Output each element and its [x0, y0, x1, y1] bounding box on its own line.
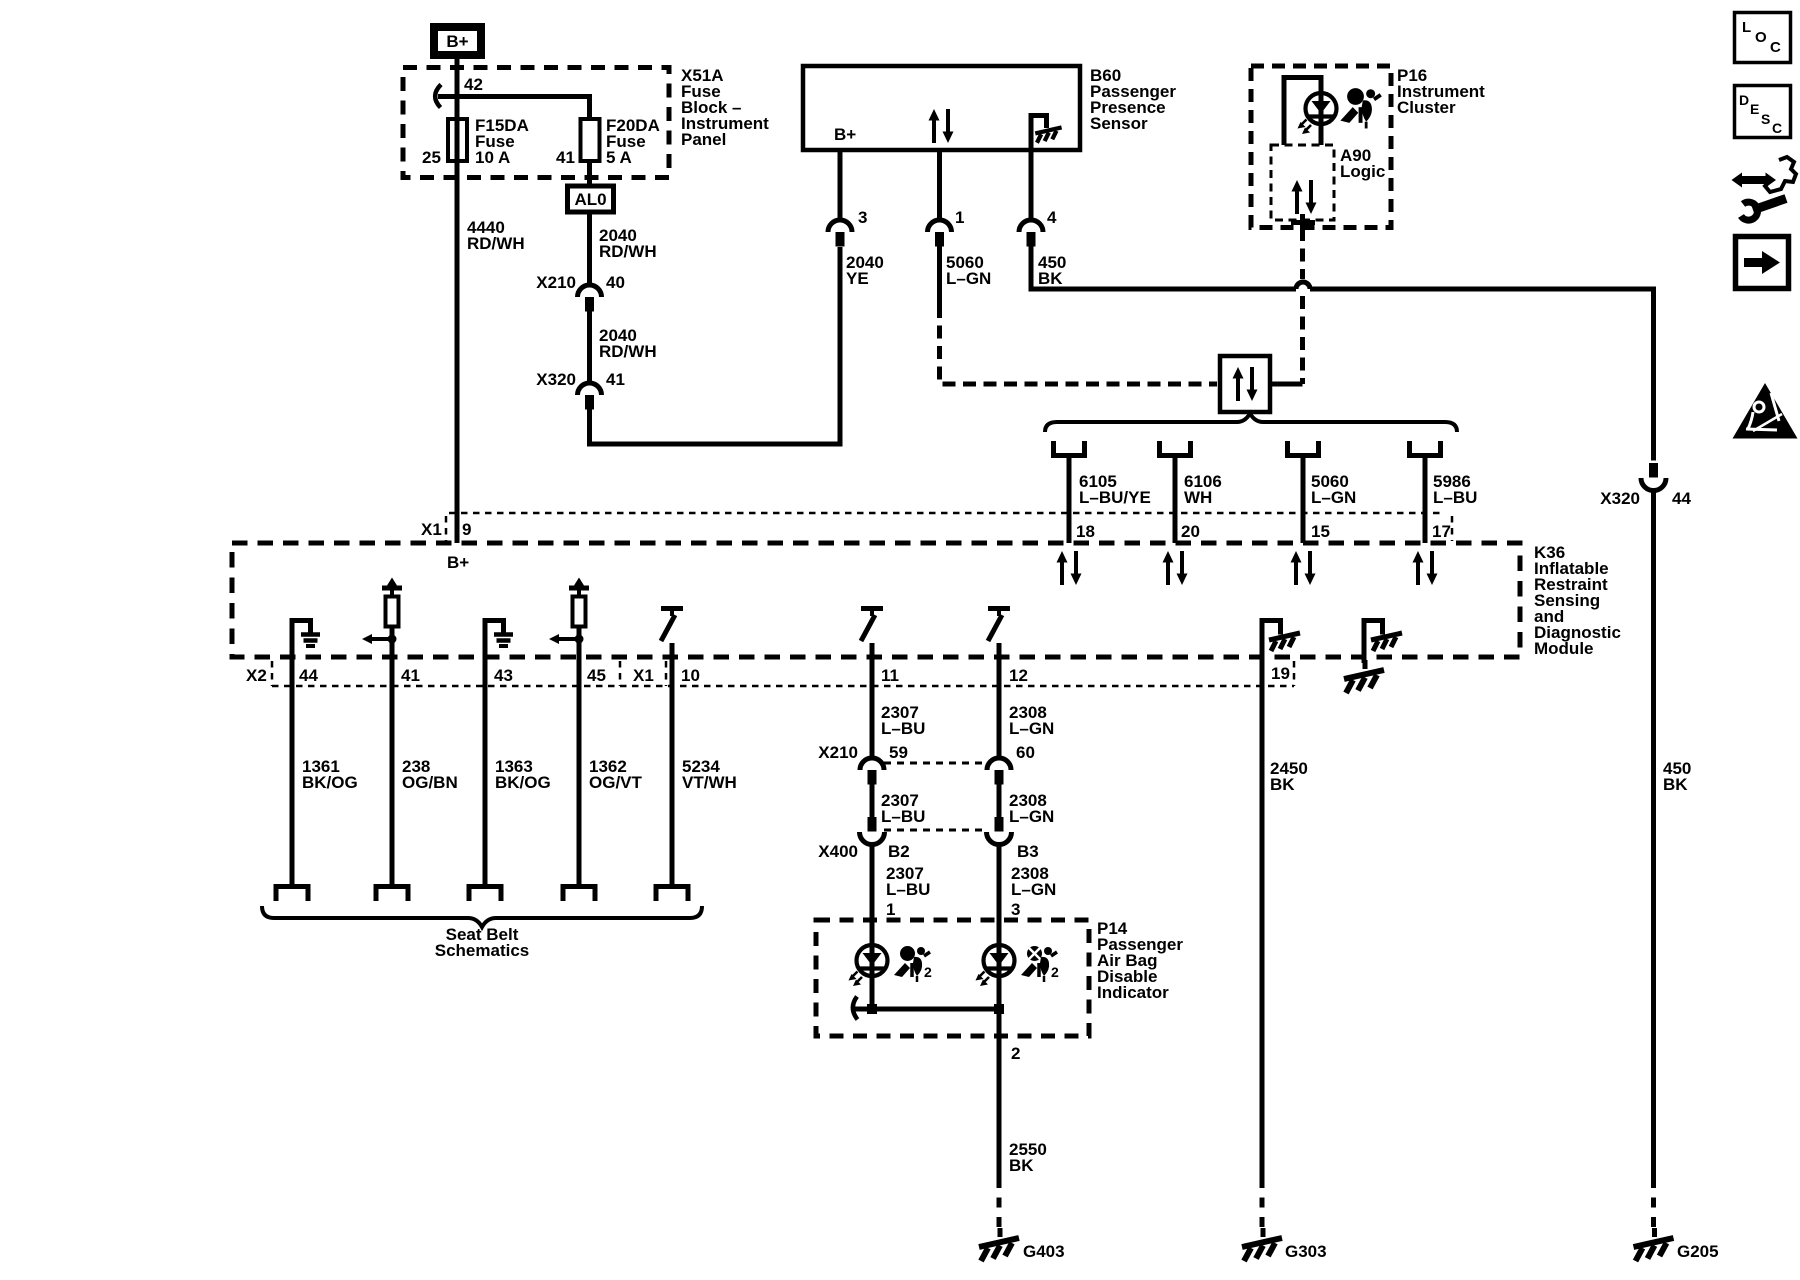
svg-text:L–GN: L–GN	[1009, 719, 1054, 738]
P16 label	[1397, 66, 1485, 117]
connector X1 top left bracket	[445, 516, 448, 541]
svg-text:B2: B2	[888, 842, 910, 861]
K36 serial arrows pin 18	[1057, 551, 1082, 585]
sidebar service icon	[1732, 157, 1797, 220]
bracket between X1 and 10	[665, 661, 668, 686]
sidebar LOC box	[1735, 13, 1791, 63]
svg-text:19: 19	[1271, 664, 1290, 683]
svg-text:X320: X320	[536, 370, 576, 389]
wire 1362 OG/VT	[577, 657, 582, 885]
B60 pin 4 lead	[1029, 150, 1034, 220]
svg-text:C: C	[1770, 39, 1781, 56]
svg-text:L–BU: L–BU	[881, 719, 925, 738]
svg-text:X1: X1	[633, 666, 654, 685]
wire 1362 label	[589, 757, 643, 792]
X51A label	[681, 66, 769, 149]
svg-text:44: 44	[299, 666, 318, 685]
wire 2040 YE label	[846, 253, 884, 288]
svg-text:1: 1	[886, 900, 895, 919]
connector at B60 pin 3	[828, 220, 852, 247]
indicator LED in cluster	[1298, 93, 1337, 134]
K36 switch pin 11	[861, 609, 883, 658]
svg-text:Logic: Logic	[1340, 162, 1385, 181]
wire 5986 L-BU	[1423, 458, 1428, 543]
svg-text:B+: B+	[834, 125, 856, 144]
wire 1361 label	[302, 757, 358, 792]
svg-text:G205: G205	[1677, 1242, 1719, 1261]
sidebar arrow box	[1736, 237, 1789, 289]
wire 2450 label	[1270, 759, 1308, 794]
svg-text:X210: X210	[818, 743, 858, 762]
fuse F20DA 5A	[581, 119, 600, 161]
terminal stub wire 5060	[1288, 441, 1319, 456]
instrument cluster P16 dashed box	[1251, 66, 1391, 228]
junction dot right	[994, 1004, 1004, 1014]
A90 bus terminal stub	[1291, 214, 1315, 228]
svg-text:L–GN: L–GN	[1311, 488, 1356, 507]
logic module A90 dashed box	[1271, 145, 1334, 220]
wire 2040 RD/WH lower label	[599, 326, 657, 361]
wire 5060 label	[1311, 472, 1356, 507]
serial data dashed line from A90	[1300, 228, 1305, 279]
P14 label	[1097, 919, 1183, 1002]
serial data symbol box	[1220, 356, 1270, 412]
wire 1363 BK/OG	[483, 657, 488, 885]
terminal stub wire 6105	[1054, 441, 1085, 456]
svg-text:11: 11	[881, 666, 899, 685]
svg-text:3: 3	[858, 208, 867, 227]
circuit tag AL0 box	[568, 186, 614, 212]
wire 2550 BK exit	[997, 1009, 1002, 1178]
ground G303	[1242, 1228, 1282, 1261]
terminal stub seat belt 1	[276, 887, 308, 902]
bus split brace	[1045, 414, 1457, 433]
svg-text:L–GN: L–GN	[1011, 880, 1056, 899]
wire 450 BK run to right	[1031, 247, 1296, 290]
ground lead dashed G403	[997, 1178, 1002, 1228]
svg-text:15: 15	[1311, 522, 1330, 541]
svg-text:59: 59	[889, 743, 908, 762]
svg-text:B+: B+	[446, 32, 468, 51]
svg-text:5 A: 5 A	[606, 148, 632, 167]
svg-text:Module: Module	[1534, 639, 1594, 658]
wire 450 BK run continued	[1310, 289, 1654, 461]
P16 indicator lamp wiring loop	[1284, 78, 1321, 146]
ground G205	[1634, 1228, 1674, 1261]
svg-text:41: 41	[606, 370, 625, 389]
svg-text:L–BU: L–BU	[886, 880, 930, 899]
svg-text:Sensor: Sensor	[1090, 114, 1148, 133]
X400 connector dashed link	[884, 829, 988, 832]
svg-text:BK: BK	[1270, 775, 1295, 794]
connector X400 pin B2	[860, 817, 885, 845]
connector X320 pin 44 right	[1641, 463, 1666, 491]
wire 238 label	[402, 757, 458, 792]
svg-text:X400: X400	[818, 842, 858, 861]
wire 6105 L-BU/YE	[1067, 458, 1072, 543]
module K36 dashed box	[232, 543, 1520, 657]
svg-text:L–BU: L–BU	[1433, 488, 1477, 507]
svg-text:G303: G303	[1285, 1242, 1327, 1261]
ground G403	[979, 1228, 1019, 1261]
svg-text:60: 60	[1016, 743, 1035, 762]
rail end clip	[853, 997, 858, 1020]
wire 2450 BK	[1260, 657, 1265, 1178]
svg-text:X210: X210	[536, 273, 576, 292]
wire 2040 RD/WH upper	[587, 212, 592, 285]
wire hop over serial data line	[1296, 282, 1310, 289]
svg-text:O: O	[1755, 29, 1767, 46]
wire 450 BK label	[1038, 253, 1066, 288]
wire 2308 label 2	[1009, 791, 1054, 826]
wire 5060 L-GN label	[946, 253, 991, 288]
indicator P14 dashed box	[816, 920, 1089, 1036]
K36 internal case ground	[1344, 618, 1402, 693]
wire 2308 L-GN segment 3	[997, 844, 1002, 1009]
K36 serial arrows pin 15	[1291, 551, 1316, 585]
K36 internal ground pin 43	[483, 618, 514, 657]
B60 pin 3 lead	[838, 150, 843, 220]
wire 5986 label	[1433, 472, 1477, 507]
svg-text:2: 2	[1051, 964, 1059, 980]
serial data stub right of symbol box	[1270, 382, 1303, 387]
svg-text:B+: B+	[447, 553, 469, 572]
wire 6106 label	[1184, 472, 1222, 507]
wire 1361 BK/OG	[290, 657, 295, 885]
battery feed B+	[434, 27, 481, 55]
svg-text:OG/BN: OG/BN	[402, 773, 458, 792]
svg-text:18: 18	[1076, 522, 1095, 541]
svg-text:S: S	[1761, 111, 1770, 127]
connector X2 bracket	[271, 661, 274, 686]
wire 5060 L-GN to K36	[1301, 458, 1306, 543]
wire 2307 label 1	[881, 703, 925, 738]
terminal stub wire 6106	[1160, 441, 1191, 456]
wire 1363 label	[495, 757, 551, 792]
K36 internal ground pin 44	[290, 618, 321, 657]
wire 5234 label	[682, 757, 737, 792]
svg-text:9: 9	[462, 520, 471, 539]
B60 serial data arrows	[929, 109, 954, 143]
wire 2040 YE run to B60 pin 3	[590, 247, 841, 444]
K36 internal ground pin 19	[1260, 618, 1301, 657]
svg-text:17: 17	[1432, 522, 1451, 541]
wire 5060 L-GN solid segment	[937, 247, 942, 306]
terminal stub seat belt 4	[563, 887, 595, 902]
B60 label	[1090, 66, 1176, 133]
wire branch to fuse F20DA	[438, 97, 590, 120]
K36 label	[1534, 543, 1621, 658]
sensor B60 box	[803, 66, 1080, 150]
svg-text:X2: X2	[246, 666, 267, 685]
svg-text:25: 25	[422, 148, 441, 167]
svg-text:VT/WH: VT/WH	[682, 773, 737, 792]
airbag off icon	[1021, 946, 1057, 982]
svg-text:D: D	[1739, 92, 1749, 108]
svg-text:L–GN: L–GN	[1009, 807, 1054, 826]
connector at B60 pin 4	[1019, 220, 1043, 247]
svg-text:Panel: Panel	[681, 130, 726, 149]
K36 sensor element pin 41	[362, 578, 402, 658]
svg-text:RD/WH: RD/WH	[599, 242, 657, 261]
wire 4440 RD/WH from B+ down to K36 pin 9	[455, 59, 460, 543]
ground lead dashed G303	[1260, 1178, 1265, 1228]
svg-text:OG/VT: OG/VT	[589, 773, 643, 792]
terminal stub seat belt 3	[469, 887, 501, 902]
svg-text:E: E	[1750, 101, 1759, 117]
svg-text:3: 3	[1011, 900, 1020, 919]
svg-text:1: 1	[955, 208, 964, 227]
P14 common rail	[853, 1007, 999, 1012]
svg-text:X320: X320	[1600, 489, 1640, 508]
wire 2308 label 3	[1011, 864, 1056, 899]
seat belt schematics caption	[435, 925, 530, 960]
svg-text:Cluster: Cluster	[1397, 98, 1456, 117]
wire 2307 L-BU segment 3	[870, 844, 875, 1009]
K36 sensor element pin 45	[549, 578, 589, 658]
svg-text:BK: BK	[1038, 269, 1063, 288]
svg-text:2: 2	[1011, 1044, 1020, 1063]
K36 serial arrows pin 17	[1413, 551, 1438, 585]
svg-text:L: L	[1742, 19, 1751, 36]
bracket right of pin 19	[1293, 661, 1296, 686]
sidebar airbag warning triangle	[1733, 383, 1798, 439]
wire 238 OG/BN	[390, 657, 395, 885]
airbag on icon	[894, 946, 930, 982]
terminal stub seat belt 5	[656, 887, 688, 902]
svg-text:43: 43	[494, 666, 513, 685]
K36 switch pin 10	[661, 609, 683, 658]
svg-text:BK/OG: BK/OG	[495, 773, 551, 792]
svg-text:L–BU: L–BU	[881, 807, 925, 826]
junction dot left	[867, 1004, 877, 1014]
svg-text:L–GN: L–GN	[946, 269, 991, 288]
wire 2040 RD/WH upper label	[599, 226, 657, 261]
svg-text:WH: WH	[1184, 488, 1212, 507]
B60 internal ground	[1029, 113, 1062, 150]
svg-text:RD/WH: RD/WH	[599, 342, 657, 361]
wire 2550 BK label	[1009, 1140, 1047, 1175]
ground lead dashed G205	[1651, 1178, 1656, 1228]
svg-text:B3: B3	[1017, 842, 1039, 861]
X210 connector dashed link	[884, 762, 988, 765]
LED indicator on	[849, 945, 888, 986]
wire 6105 label	[1079, 472, 1151, 507]
sidebar DESC box	[1735, 86, 1791, 138]
B60 pin 1 lead	[937, 150, 942, 220]
svg-text:BK: BK	[1009, 1156, 1034, 1175]
svg-text:12: 12	[1009, 666, 1028, 685]
svg-text:42: 42	[464, 75, 483, 94]
wire 2308 L-GN segment 1	[997, 657, 1002, 758]
bracket between 45 and X1	[619, 661, 622, 686]
wire 2308 label 1	[1009, 703, 1054, 738]
connector X320 pin 41	[578, 383, 602, 410]
svg-text:C: C	[1772, 120, 1782, 136]
svg-text:41: 41	[401, 666, 420, 685]
connector X1 top right bracket	[1451, 516, 1454, 541]
svg-text:44: 44	[1672, 489, 1691, 508]
A90 serial data arrows	[1292, 180, 1317, 214]
airbag warning icon in cluster	[1340, 88, 1380, 128]
connector X1 top dashed line	[449, 512, 1445, 515]
svg-text:AL0: AL0	[574, 190, 606, 209]
connector bottom dashed line	[272, 685, 1294, 688]
wire 2307 L-BU segment 2	[870, 785, 875, 818]
svg-text:10 A: 10 A	[475, 148, 510, 167]
K36 serial arrows pin 20	[1163, 551, 1188, 585]
terminal stub seat belt 2	[376, 887, 408, 902]
LED indicator off	[976, 945, 1015, 986]
svg-text:41: 41	[556, 148, 575, 167]
wire 2307 label 2	[881, 791, 925, 826]
svg-text:40: 40	[606, 273, 625, 292]
wire 6106 WH	[1173, 458, 1178, 543]
fuse F15DA value label	[475, 116, 529, 167]
svg-text:Schematics: Schematics	[435, 941, 530, 960]
svg-text:BK: BK	[1663, 775, 1688, 794]
seat belt schematics brace	[262, 906, 702, 927]
svg-text:20: 20	[1181, 522, 1200, 541]
fuse F20DA value label	[606, 116, 660, 167]
fuse block X51A dashed box	[403, 68, 669, 178]
connector X210 pin 40	[578, 285, 602, 312]
svg-text:2: 2	[924, 964, 932, 980]
wire 450 BK right label	[1663, 759, 1691, 794]
svg-text:YE: YE	[846, 269, 869, 288]
wire 5234 VT/WH	[670, 657, 675, 885]
A90 label	[1340, 146, 1385, 181]
K36 switch pin 12	[988, 609, 1010, 658]
wire 2308 L-GN segment 2	[997, 785, 1002, 818]
svg-text:45: 45	[587, 666, 606, 685]
svg-text:G403: G403	[1023, 1242, 1065, 1261]
serial data dashed line from B60 pin 1	[940, 305, 1218, 384]
connector at B60 pin 1	[928, 220, 952, 247]
svg-text:BK/OG: BK/OG	[302, 773, 358, 792]
svg-text:RD/WH: RD/WH	[467, 234, 525, 253]
wire 2040 RD/WH lower	[587, 312, 592, 384]
svg-text:Indicator: Indicator	[1097, 983, 1169, 1002]
svg-text:X1: X1	[421, 520, 442, 539]
wire 2307 label 3	[886, 864, 930, 899]
connector X210 pin 60	[987, 758, 1011, 785]
svg-text:10: 10	[681, 666, 700, 685]
wire 2307 L-BU segment 1	[870, 657, 875, 758]
svg-text:L–BU/YE: L–BU/YE	[1079, 488, 1151, 507]
splice clip at fuse block feed	[435, 85, 441, 108]
connector X400 pin B3	[987, 817, 1012, 845]
svg-text:4: 4	[1047, 208, 1057, 227]
wire 450 BK right run	[1651, 490, 1656, 1178]
fuse F15DA 10A	[448, 119, 467, 161]
terminal stub wire 5986	[1410, 441, 1441, 456]
connector X210 pin 59	[860, 758, 884, 785]
wire from F20DA to AL0	[587, 161, 592, 186]
wire 4440 RD/WH label	[467, 218, 525, 253]
